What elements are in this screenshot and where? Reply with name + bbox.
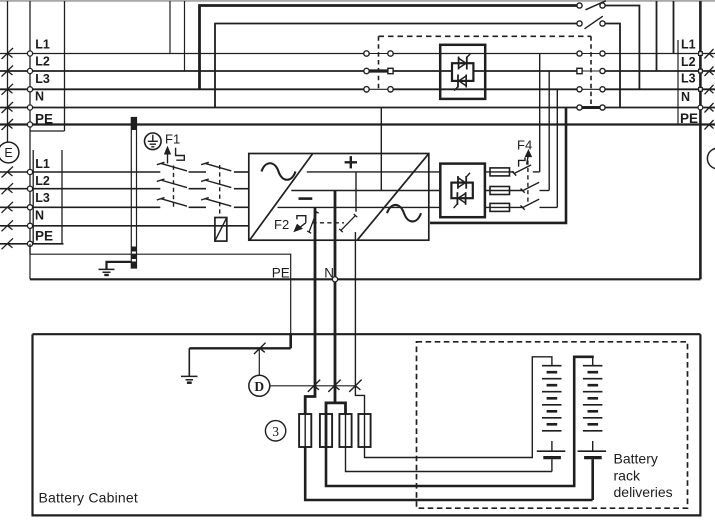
svg-text:PE: PE (35, 229, 53, 244)
wire L3 rect row mid (189, 206, 206, 208)
wire L2 bypass row middle (393, 70, 452, 72)
svg-text:L3: L3 (35, 191, 50, 205)
label column border bottom group (61, 150, 63, 244)
switch S1 blade (586, 1, 606, 10)
breaker Q1 coupling dashed (173, 166, 175, 208)
fuse battery 2 (320, 414, 332, 447)
switch Q2 bypass input L1 (369, 53, 388, 55)
maintenance bypass line N top (215, 24, 577, 108)
maintenance bypass line L3 top (200, 6, 577, 90)
terminal PE input (27, 122, 32, 127)
wire battery minus (305, 207, 315, 414)
wire L2 inverter out (485, 190, 523, 192)
fuse battery 3 (339, 414, 351, 447)
svg-text:deliveries: deliveries (614, 484, 673, 500)
left bus labels (35, 38, 53, 244)
bypass feed riser L2 (184, 1, 186, 71)
mechanical coupling dashed link output switch (590, 36, 592, 107)
svg-text:rack: rack (614, 467, 641, 483)
mechanical coupling dashed cross link (379, 35, 592, 37)
battery cabinet box (33, 334, 701, 515)
wire L1 bypass input row (0, 53, 364, 55)
wire PE to battery cabinet (30, 244, 291, 334)
svg-text:PE: PE (35, 112, 53, 127)
fuse-switch F4 symbol (519, 157, 525, 166)
switch Q3 output N closed link (582, 106, 600, 109)
left edge continuation slashes (2, 48, 14, 249)
wire L3 rectifier input row (0, 206, 160, 208)
callout circle 3 (265, 421, 285, 441)
wire L2 bypass input row (0, 70, 364, 72)
wire L3 bypass row output (605, 88, 715, 90)
rectifier-inverter unit box (249, 108, 440, 241)
wire battery plus upper (355, 172, 357, 212)
ground battery cabinet (188, 348, 190, 376)
terminal PE rectifier input (27, 241, 32, 246)
svg-text:N: N (681, 90, 690, 104)
svg-text:L1: L1 (35, 157, 50, 171)
wire fuse1 to string2 bottom (305, 447, 592, 500)
switch S2 maintenance N contacts (577, 21, 582, 26)
wire L3 bypass row middle (393, 88, 577, 90)
svg-text:L2: L2 (681, 55, 696, 69)
wire L2 rect row to box (234, 188, 249, 190)
rectifier AC sine (262, 163, 296, 180)
svg-text:L1: L1 (35, 38, 50, 52)
wire L1 to riser (533, 171, 540, 173)
earth symbol in circle (145, 133, 162, 150)
right edge continuation slashes (705, 49, 714, 130)
wire PE row (0, 123, 715, 125)
breaker Q1 pole L3 blade (157, 198, 187, 207)
node F output continuation circle (707, 148, 715, 169)
svg-text:D: D (254, 379, 264, 394)
node E mains continuation circle (0, 142, 19, 163)
switch Q4 pole L2 blade (201, 179, 231, 188)
wire N row output (605, 107, 715, 109)
disconnect link battery mid (328, 380, 340, 392)
terminal L3 rectifier input (27, 205, 32, 210)
wire L2 to riser (540, 190, 550, 192)
inverter diagonal (358, 154, 429, 240)
switch Q4 coupling dashed (219, 165, 221, 218)
bypass feed riser L2 right (656, 1, 658, 71)
switch Q4 pole L3 blade (201, 198, 231, 207)
wall terminal L3 output (699, 88, 703, 92)
wire DC minus rail / L3 out (278, 206, 441, 208)
UPS cabinet bottom (30, 278, 700, 280)
svg-text:L3: L3 (35, 72, 50, 86)
node D circle (249, 375, 270, 396)
battery rack dashed box (417, 342, 688, 508)
wire L1 rectifier input row (0, 171, 160, 173)
label column border top group (64, 1, 66, 131)
riser L3 to bypass (556, 89, 558, 207)
wire L1 rect row to box (234, 171, 249, 173)
wire N inverter out (430, 108, 566, 223)
wire L3 to riser (540, 206, 558, 208)
PE busbar (131, 118, 136, 269)
DC plus sign (345, 156, 357, 168)
right bus labels (680, 38, 698, 127)
switch F4 blade L1 (512, 165, 531, 176)
switch S2 blade (585, 16, 603, 29)
svg-text:Battery: Battery (614, 451, 658, 467)
switch S1 maintenance L3 contacts (577, 3, 582, 8)
UPS cabinet right wall (699, 1, 702, 279)
svg-text:F1: F1 (165, 132, 180, 147)
wire PE ground link battery (189, 347, 290, 349)
thyristor pair U2 loop (451, 183, 472, 199)
switch Q2 bypass input L3 (369, 88, 388, 90)
wire DC plus rail / L1 out (307, 171, 441, 173)
wire L2 bypass row output (605, 70, 715, 72)
wire L1 inverter out (485, 171, 514, 173)
terminal L2 input (27, 68, 32, 73)
riser L1 to bypass (539, 54, 541, 172)
thyristor U1 bottom (465, 75, 467, 88)
breaker Q1 pole L2 blade (157, 179, 187, 188)
svg-text:F4: F4 (517, 137, 532, 152)
fuse-switch F2 symbol (297, 216, 306, 223)
disconnect link battery minus (308, 380, 320, 392)
UPS cabinet left wall (7, 1, 9, 142)
wire L2 rect row mid (189, 188, 206, 190)
wire L1 bypass row output (605, 53, 715, 55)
switch Q2 bypass input L2 closed link (369, 69, 387, 72)
svg-text:E: E (4, 146, 12, 160)
switch Q4 pole L1 blade (201, 162, 231, 171)
static bypass switch box U1 (440, 45, 485, 99)
svg-text:L1: L1 (681, 38, 696, 52)
svg-text:3: 3 (272, 424, 279, 439)
wall terminal N output (698, 105, 703, 110)
DC minus sign (299, 197, 313, 200)
terminal L1 input (27, 51, 32, 56)
PE label box bottom (30, 130, 65, 132)
input terminal rail (29, 1, 31, 254)
bypass feed riser L1 right (673, 1, 675, 54)
wire battery plus lower (355, 232, 364, 414)
terminal L3 input (27, 87, 32, 92)
switch Q3 output L3 (582, 88, 600, 90)
battery string 2 (583, 366, 603, 431)
svg-text:PE: PE (272, 266, 290, 281)
wire D tap (258, 348, 260, 375)
wire fuse4 to string1 top (365, 357, 552, 458)
svg-text:L2: L2 (35, 55, 50, 69)
F4 coupling dashed (527, 161, 529, 206)
svg-text:PE: PE (680, 111, 698, 126)
breaker Q1 pole L1 blade (157, 162, 187, 171)
terminal L2 rectifier input (27, 186, 32, 191)
inverter AC sine (387, 205, 421, 222)
wire L2 bypass row middle2 (473, 70, 577, 72)
fuse-switch F1 symbol (167, 150, 169, 164)
wire battery mid (334, 191, 337, 403)
terminal L1 rectifier input (27, 169, 32, 174)
thyristor U2 top (457, 176, 459, 189)
label column left border bottom group (32, 150, 34, 244)
ground upper cabinet (107, 262, 132, 270)
F2 coupling dashed (313, 222, 345, 224)
wall terminal L1 output (699, 52, 703, 56)
fuse F4c (490, 203, 510, 211)
wire PE rectifier input row (0, 243, 64, 245)
thyristor pair U1 loop (452, 63, 473, 81)
page cut edge top (0, 0, 715, 2)
wire N row (0, 107, 577, 109)
wire DC mid rail / L2 out (291, 190, 440, 192)
wire N rectifier input row (0, 225, 249, 227)
wire fuse3 to string1 bottom (346, 447, 552, 472)
mechanical coupling dashed link bypass input (378, 36, 380, 89)
fuse battery 4 (358, 414, 370, 447)
battery plus switch blade (339, 214, 357, 232)
riser L2 to bypass (548, 71, 550, 191)
terminal N input (27, 105, 32, 110)
bypass feed riser L1 (169, 1, 171, 54)
terminal N rectifier input (27, 223, 32, 228)
battery string 1 (542, 366, 562, 431)
svg-text:F2: F2 (274, 217, 289, 232)
output label column border (677, 40, 679, 125)
wire L3 inverter out (485, 206, 523, 208)
junction N on cabinet bottom (332, 277, 337, 282)
fuse F4b (490, 187, 510, 195)
wire D sense line (270, 385, 356, 387)
rectifier diagonal (250, 154, 312, 240)
maintenance bypass line N return (605, 24, 620, 108)
switch Q3 output L1 (582, 53, 600, 55)
fuse battery 1 (299, 414, 311, 447)
inverter output static switch box U2 (440, 164, 485, 218)
svg-text:N: N (35, 209, 44, 223)
switch F4 blade L2 (521, 182, 540, 193)
wire L3 bypass input row (0, 88, 364, 90)
thyristor U1 top (458, 57, 460, 70)
svg-text:N: N (35, 90, 44, 104)
switch Q3 output L2 (582, 70, 600, 72)
operating mechanism box (215, 218, 227, 242)
wire fuse2 to string2 top (326, 357, 594, 486)
fuse F4a (490, 168, 510, 176)
bolted link mark on PE (254, 343, 266, 354)
wire L1 rect row mid (189, 171, 206, 173)
wire battery mid tee (326, 403, 346, 414)
svg-text:L3: L3 (681, 72, 696, 86)
switch F4 blade L3 (521, 199, 540, 210)
maintenance bypass line L3 return (605, 6, 639, 90)
svg-text:L2: L2 (35, 174, 50, 188)
thyristor U2 bottom (465, 192, 467, 205)
wire L2 rectifier input row (0, 188, 160, 190)
wire N tap from bypass (380, 108, 382, 191)
wire L1 bypass row middle (393, 53, 577, 55)
battery minus switch blade (307, 211, 319, 234)
wall terminal L2 output (699, 69, 703, 73)
svg-text:Battery Cabinet: Battery Cabinet (39, 490, 139, 506)
wire L3 rect row to box (234, 206, 249, 208)
disconnect link battery plus (349, 380, 361, 392)
